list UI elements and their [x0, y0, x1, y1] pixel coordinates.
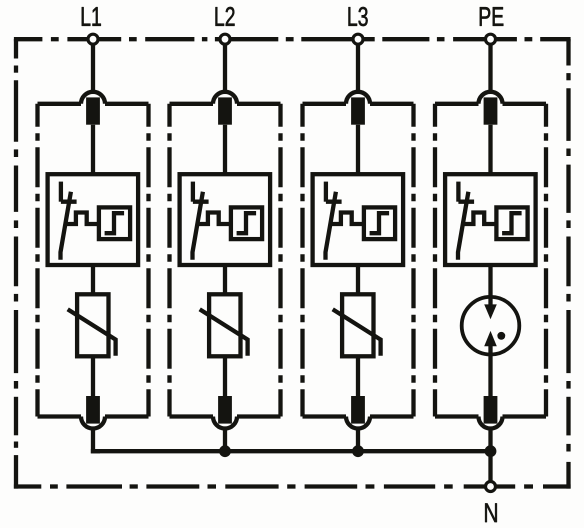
node L1 terminal — [88, 34, 98, 44]
wire L2 terminal to plug-in contact — [223, 45, 227, 91]
plug-in contact top (L1) — [81, 92, 105, 125]
module SPD1 outline (dashed plug-in module box) — [38, 104, 149, 417]
node PE terminal — [486, 34, 496, 44]
wire PE contact down to N bus — [488, 429, 492, 452]
label L1 — [82, 7, 91, 26]
wire contact to disconnect device (PE) — [488, 125, 492, 175]
label PE — [480, 7, 490, 26]
wire contact to disconnect device (L3) — [356, 125, 360, 175]
wire disconnect to varistor (L3) — [356, 265, 360, 294]
disconnect device F4 (thermal disconnector) — [445, 174, 535, 265]
wire contact to disconnect device (L2) — [223, 125, 227, 175]
wire disconnect to varistor (L2) — [223, 265, 227, 294]
plug-in contact bottom (PE) — [479, 396, 503, 429]
wire N bus (horizontal) — [91, 449, 491, 453]
plug-in contact bottom (L2) — [213, 396, 237, 429]
wire disconnect to spark gap (PE) — [488, 265, 492, 306]
disconnect device F2 (thermal disconnector) — [180, 174, 271, 265]
plug-in contact bottom (L3) — [346, 396, 370, 429]
varistor RV1 — [68, 294, 116, 356]
label L3 — [348, 7, 357, 26]
plug-in contact top (L3) — [346, 92, 370, 125]
node N terminal — [486, 482, 496, 492]
wire L1 terminal to plug-in contact — [91, 45, 95, 91]
disconnect device F3 (thermal disconnector) — [313, 174, 404, 265]
junction L2/bus — [219, 445, 231, 457]
junction PE/bus — [485, 445, 497, 457]
wire bus to N terminal — [488, 451, 492, 486]
plug-in contact bottom (L1) — [81, 396, 105, 429]
disconnect device F1 (thermal disconnector) — [48, 174, 139, 265]
wire varistor to bottom contact (L2) — [223, 356, 227, 396]
module SPD3 outline (dashed plug-in module box) — [303, 104, 414, 417]
label L2 — [215, 7, 224, 26]
spark gap GDT1 (gas discharge tube N-PE) — [462, 297, 520, 355]
plug-in contact top (L2) — [213, 92, 237, 125]
varistor RV2 — [200, 294, 248, 356]
wire varistor to bottom contact (L3) — [356, 356, 360, 396]
wire disconnect to varistor (L1) — [91, 265, 95, 294]
module SPD2 outline (dashed plug-in module box) — [170, 104, 281, 417]
wire PE terminal to plug-in contact — [488, 45, 492, 91]
wire L3 contact down to N bus — [356, 429, 360, 452]
node L2 terminal — [220, 34, 230, 44]
plug-in contact top (PE) — [479, 92, 503, 125]
label N — [485, 503, 497, 522]
wire L2 contact down to N bus — [223, 429, 227, 452]
wire contact to disconnect device (L1) — [91, 125, 95, 175]
wire L1 contact down to N bus (corner) — [93, 429, 100, 452]
wire L3 terminal to plug-in contact — [356, 45, 360, 91]
junction L3/bus — [352, 445, 364, 457]
wire varistor to bottom contact (L1) — [91, 356, 95, 396]
module SPD4 outline (dashed plug-in module box) — [435, 104, 546, 417]
varistor RV3 — [333, 294, 381, 356]
wire spark gap to bottom contact (PE) — [488, 346, 492, 397]
node L3 terminal — [353, 34, 363, 44]
